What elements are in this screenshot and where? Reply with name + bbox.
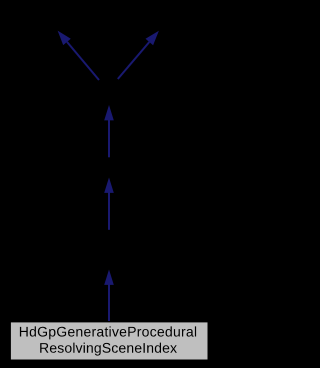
inheritance arrow 1 (top vertical)	[104, 105, 114, 157]
inheritance arrow to upper-right base class	[118, 31, 159, 79]
node HdGpGenerativeProceduralResolvingSceneIndex (current class, grey box)	[10, 322, 208, 360]
inheritance arrow 3 (bottom vertical)	[104, 270, 114, 322]
inheritance arrow to upper-left base class	[58, 31, 99, 80]
inheritance arrow 2 (middle vertical)	[104, 178, 114, 230]
